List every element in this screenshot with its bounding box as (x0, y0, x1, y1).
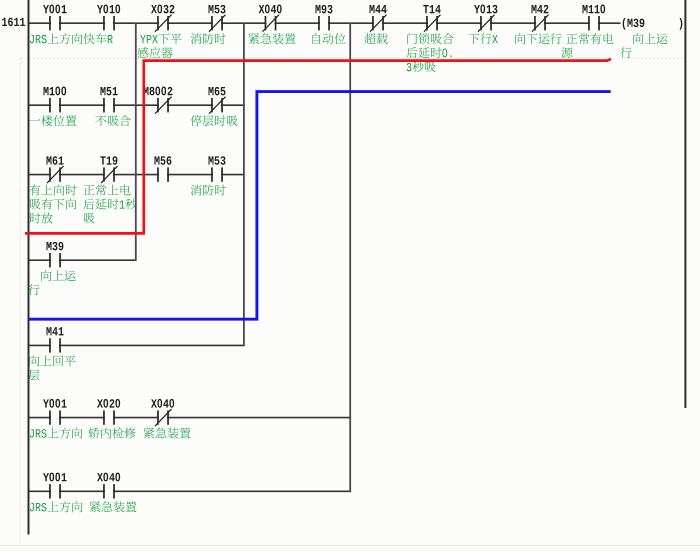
contact M100 NO - first floor position (30, 86, 77, 126)
step number 1611 (2, 18, 25, 26)
contact Y001 NO - JRS up direction (30, 473, 82, 513)
contact M56 NO (154, 156, 171, 182)
contact M65 NC - stop level pick (190, 87, 237, 126)
blue highlight trace (28, 92, 611, 320)
wire branch row5 (30, 344, 245, 346)
contact Y001 NO - JRS up direction (30, 4, 82, 44)
contact T19 NC - power-on delay 1s (83, 156, 136, 223)
wire branch row2 (30, 104, 245, 106)
contact M51 NO - not picked (95, 87, 130, 126)
contact T14 NC - door lock delay 0.3s (406, 5, 453, 72)
contact M93 NO - auto position (312, 5, 345, 44)
branch vertical V1 (135, 22, 137, 261)
contact M61 NC - up hold down release (30, 156, 77, 223)
contact M44 NC - overload (364, 5, 387, 44)
contact X040 NC - emergency device (144, 399, 191, 439)
contact M8002 NC (143, 86, 172, 113)
contact M39 NO - run up (28, 242, 75, 295)
branch vertical V2 (243, 22, 245, 346)
wire branch row4 (30, 259, 137, 261)
right power rail (684, 0, 686, 408)
contact X040 NC - emergency device (249, 4, 296, 44)
contact X020 NO - car inspection (88, 399, 135, 439)
coil M39 - run up (620, 18, 682, 58)
contact X040 NO - emergency device (90, 473, 137, 513)
contact X032 NC - YPX down-level sensor (138, 4, 182, 58)
wire branch row7 (30, 490, 352, 492)
contact Y013 NC - down X (469, 4, 498, 44)
left power rail (28, 0, 30, 535)
wire branch row6 (30, 417, 352, 419)
contact M53 NC - fire time (191, 5, 226, 44)
contact Y001 NO - JRS up direction (30, 399, 82, 439)
red highlight trace (25, 59, 611, 234)
wire branch row3 (30, 174, 245, 176)
contact M42 NC - running down (515, 5, 561, 44)
contact M110 NO - power normal (561, 4, 613, 58)
contact M53 NO - fire time (191, 156, 226, 195)
branch vertical V3 (349, 22, 351, 492)
wire rung1 horizontal (30, 22, 621, 24)
contact M41 NO - up releveling (28, 327, 75, 380)
contact Y010 NO - fast car R (84, 4, 121, 44)
